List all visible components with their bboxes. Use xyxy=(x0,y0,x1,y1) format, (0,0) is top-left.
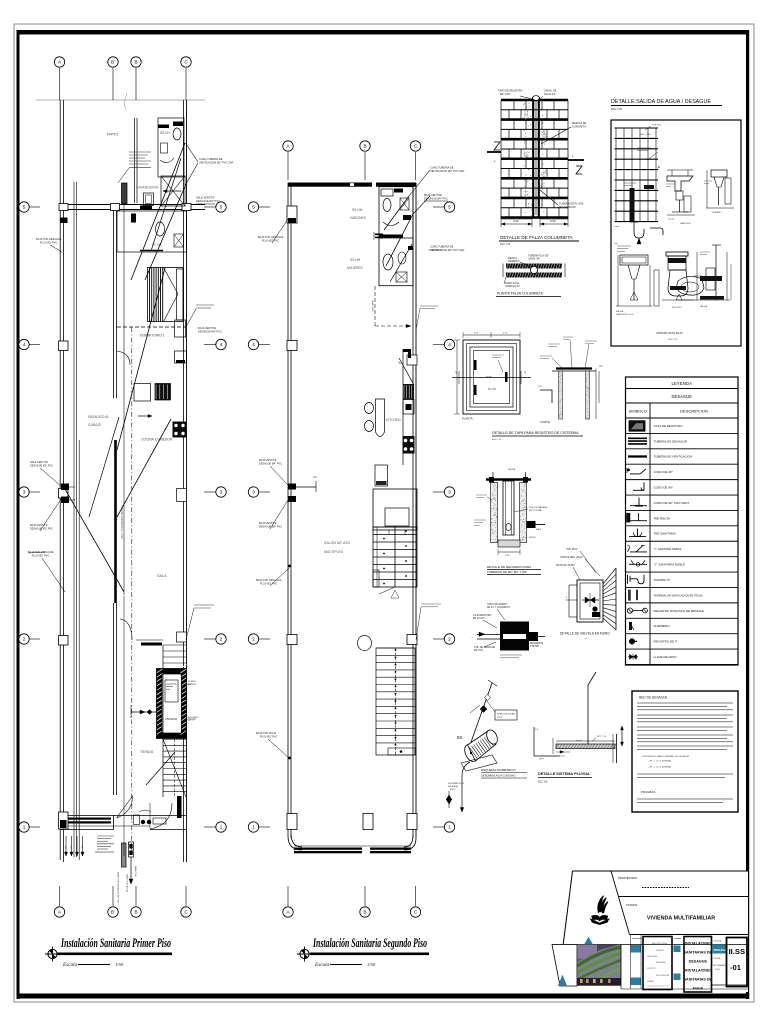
svg-text:ARQUITECTURA: ARQUITECTURA xyxy=(652,942,668,945)
plan1 row bubbles left xyxy=(30,206,41,208)
plan1 viene marker under row5 xyxy=(61,218,68,224)
svg-text:- Ø4" = 1.0 % (MINIMA): - Ø4" = 1.0 % (MINIMA) xyxy=(648,760,671,763)
svg-text:PROPIETARIO:: PROPIETARIO: xyxy=(618,876,638,880)
svg-text:B: B xyxy=(363,144,366,149)
svg-text:LAVANDERIA: LAVANDERIA xyxy=(136,186,159,190)
svg-text:CONCRETO: CONCRETO xyxy=(572,126,586,129)
plan2 row2 ellipse column xyxy=(358,636,372,651)
svg-text:SALIDA: SALIDA xyxy=(508,468,516,471)
salida: wall grid top-left xyxy=(615,128,659,222)
planta falza columneta xyxy=(506,264,562,269)
plan2 store room bottom xyxy=(373,489,417,530)
svg-text:REVISADA: REVISADA xyxy=(656,961,666,964)
svg-text:Instalación Sanitaria Primer P: Instalación Sanitaria Primer Piso xyxy=(60,936,171,950)
svg-text:NICHO EN MURO: NICHO EN MURO xyxy=(556,565,575,567)
svg-text:"Y" SANITARIA SIMPLE: "Y" SANITARIA SIMPLE xyxy=(654,547,682,551)
svg-text:VENTILACION Ø2" PVC SAP: VENTILACION Ø2" PVC SAP xyxy=(430,169,465,173)
svg-text:0.50: 0.50 xyxy=(550,219,556,223)
svg-text:SUBEN: SUBEN xyxy=(188,681,196,683)
svg-text:SALE: SALE xyxy=(536,528,542,531)
pluvial riser line xyxy=(587,685,589,744)
tapa registro top dims xyxy=(463,334,520,336)
svg-text:AGUA 3/4": AGUA 3/4" xyxy=(544,93,556,96)
svg-text:1: 1 xyxy=(252,825,255,830)
lamina number box xyxy=(727,938,748,987)
plan2 bottom wall black bars xyxy=(294,848,362,850)
svg-text:B′: B′ xyxy=(111,60,115,65)
svg-text:B: B xyxy=(134,60,137,65)
svg-text:SALE TUB. AGUA: SALE TUB. AGUA xyxy=(126,874,129,892)
svg-text:BAJA TUB. DESAGUA: BAJA TUB. DESAGUA xyxy=(256,579,282,582)
svg-text:Ø 1/2": Ø 1/2" xyxy=(497,717,503,719)
svg-text:MUJERES: MUJERES xyxy=(347,266,364,270)
svg-text:1: 1 xyxy=(23,825,26,830)
svg-text:5: 5 xyxy=(252,205,255,210)
svg-text:REGISTRO ROSCADO DE BRONCE: REGISTRO ROSCADO DE BRONCE xyxy=(654,609,704,613)
title block slanted left edge xyxy=(563,871,572,945)
refuerzo central pipe xyxy=(503,481,514,535)
plan1 dormitorio window rect xyxy=(175,320,186,337)
svg-text:DE Fo. Y CONCRETO: DE Fo. Y CONCRETO xyxy=(487,607,510,609)
bottom strip header line xyxy=(632,938,642,940)
photo strip top line xyxy=(552,944,748,946)
svg-text:LAVATORIO: LAVATORIO xyxy=(680,222,691,225)
svg-text:DESAGUE Ø4" PVC: DESAGUE Ø4" PVC xyxy=(198,330,222,334)
plan1 arrow mid xyxy=(138,415,152,417)
svg-text:CAJA DE REGISTRO: CAJA DE REGISTRO xyxy=(654,424,684,428)
svg-text:ESC 1:10: ESC 1:10 xyxy=(492,439,502,441)
svg-text:Ø4": Ø4" xyxy=(69,846,71,850)
plan2 left pipe dot xyxy=(288,565,291,568)
svg-text:DETALLE DE REFUERZO PARA: DETALLE DE REFUERZO PARA xyxy=(487,565,531,569)
svg-text:PLUV Ø3" PVC: PLUV Ø3" PVC xyxy=(260,583,277,586)
svg-text:**: ** xyxy=(585,637,587,641)
plan2 row bubbles right xyxy=(433,206,444,208)
svg-text:BAJA TUB. DESAGUA: BAJA TUB. DESAGUA xyxy=(36,238,62,241)
refuerzo left annotations xyxy=(476,494,487,496)
svg-text:→: → xyxy=(470,635,473,639)
title block outline xyxy=(552,871,748,992)
svg-text:TUBERIAS DE Ø2" Ø3" Y Ø4": TUBERIAS DE Ø2" Ø3" Y Ø4" xyxy=(487,570,527,574)
svg-text:KITCHEN: KITCHEN xyxy=(386,418,401,422)
svg-text:MEZCLA DE: MEZCLA DE xyxy=(572,122,587,125)
svg-text:muro: muro xyxy=(614,225,620,228)
refuerzo stippled columns xyxy=(491,483,498,543)
teal bar 2 xyxy=(674,946,681,953)
refuerzo black outlet right xyxy=(527,521,536,528)
salida: lavatorio front bottom left xyxy=(620,255,648,265)
inner thick border frame xyxy=(17,30,750,35)
svg-text:UNION: UNION xyxy=(529,537,536,539)
svg-text:DE 12"x24": DE 12"x24" xyxy=(473,618,485,620)
plan1 stove 4-burner xyxy=(173,422,187,438)
plan1 dashed wall dormitorio xyxy=(117,326,186,328)
svg-text:2021: 2021 xyxy=(715,969,721,971)
svg-text:SALA: SALA xyxy=(157,574,167,578)
plan1 lavanderia fixtures xyxy=(144,193,154,206)
adventist logo flame xyxy=(598,896,604,913)
valvula inner symbols xyxy=(582,599,599,601)
svg-text:TEE SANITARIA: TEE SANITARIA xyxy=(654,532,676,536)
svg-text:CODO DE 45°: CODO DE 45° xyxy=(654,470,674,474)
svg-text:LEVANT.: LEVANT. xyxy=(647,980,655,983)
teal triangle bottom left xyxy=(558,975,567,986)
svg-text:CODO DE 90° CON VENT.: CODO DE 90° CON VENT. xyxy=(654,501,690,505)
title block top edge xyxy=(573,870,749,872)
leyenda table frame xyxy=(626,377,739,665)
svg-text:- Ø2" = 1.5 % (MINIMA): - Ø2" = 1.5 % (MINIMA) xyxy=(648,766,671,769)
svg-text:3: 3 xyxy=(220,490,223,495)
valvula box xyxy=(577,580,603,622)
svg-text:SALE VENT/TE: SALE VENT/TE xyxy=(196,196,215,200)
svg-text:ESC 1:25: ESC 1:25 xyxy=(611,107,623,111)
svg-text:PLANOS: PLANOS xyxy=(656,949,664,952)
svg-text:CAJA REGISTRO: CAJA REGISTRO xyxy=(473,614,492,617)
svg-text:AGUA: AGUA xyxy=(692,987,703,991)
svg-text:DESAGUE Ø2" PVC: DESAGUE Ø2" PVC xyxy=(30,528,53,531)
svg-text:SETIEMBRE: SETIEMBRE xyxy=(713,965,726,967)
caja registro black box xyxy=(500,622,529,651)
svg-text:CANAL 3/4": CANAL 3/4" xyxy=(528,257,540,260)
compass plan1 xyxy=(48,949,57,958)
falza columneta stipple patches xyxy=(524,111,547,197)
svg-text:DESAGUE Ø2" PVC: DESAGUE Ø2" PVC xyxy=(30,465,53,468)
svg-text:ESCALA: ESCALA xyxy=(714,940,723,943)
plan2 left wall xyxy=(287,183,289,836)
svg-text:◄: ◄ xyxy=(657,165,660,169)
svg-text:B: B xyxy=(363,910,366,915)
plan2 stairs upper xyxy=(373,527,417,587)
esquema iso base parallelogram xyxy=(461,755,497,771)
svg-text:SALIDA: SALIDA xyxy=(700,305,708,308)
svg-text:ESQUEMA ISOMETRICO: ESQUEMA ISOMETRICO xyxy=(481,768,516,772)
plan2 pipe stub left of bath xyxy=(375,234,383,236)
svg-text:PROVIDENCIA: PROVIDENCIA xyxy=(656,974,670,977)
svg-text:LADRILLO KK: LADRILLO KK xyxy=(505,285,520,288)
svg-text:SUBE VENT.: SUBE VENT. xyxy=(371,300,373,313)
svg-text:Ø1/2": Ø1/2" xyxy=(450,789,456,791)
svg-text:SS.HH.: SS.HH. xyxy=(350,258,361,262)
plan1 shower box with X xyxy=(161,176,185,206)
salida: inodoro side bottom middle xyxy=(666,252,688,256)
svg-text:TERMINAL DE VENTILACION EN TEC: TERMINAL DE VENTILACION EN TECHO xyxy=(654,593,703,597)
svg-text:1/50: 1/50 xyxy=(367,962,376,967)
svg-text:-INSTALACINES: -INSTALACINES xyxy=(684,942,713,946)
svg-text:PASADIZO AL: PASADIZO AL xyxy=(88,415,109,419)
title block inner slant divider xyxy=(611,871,630,935)
plan1 bathroom row5 fixtures xyxy=(117,211,187,252)
svg-text:CISTERNA: CISTERNA xyxy=(165,718,177,721)
svg-text:P MURO: P MURO xyxy=(530,646,539,648)
svg-text:TRAMITE: TRAMITE xyxy=(626,903,638,907)
plan1 bottom valve fixtures xyxy=(122,843,127,867)
revision cell xyxy=(643,937,672,990)
svg-text:TAPA: TAPA xyxy=(486,376,492,379)
plan1 bottom fixtures xyxy=(134,815,140,825)
svg-text:Escala: Escala xyxy=(314,962,330,968)
svg-text:3: 3 xyxy=(252,490,255,495)
photo strip parallelogram left xyxy=(552,945,577,987)
salida: urinario top right xyxy=(711,170,727,177)
svg-text:3: 3 xyxy=(23,490,26,495)
svg-text:SALON DE USO: SALON DE USO xyxy=(324,541,351,545)
plan1 note sale tub row2 right xyxy=(194,604,214,606)
notes text lines xyxy=(637,702,733,704)
plan1 diagonal sala xyxy=(65,489,124,592)
plan1 bottom pipe arrows left xyxy=(65,836,67,856)
svg-text:5: 5 xyxy=(220,205,223,210)
svg-text:Ø4": Ø4" xyxy=(64,846,66,850)
plan1 dorm diagonal xyxy=(117,268,165,450)
teal triangle under logo xyxy=(584,937,593,945)
svg-text:SALE VENT/TE: SALE VENT/TE xyxy=(30,461,48,464)
svg-text:DE BOMBAS AGUA CONSUMO: DE BOMBAS AGUA CONSUMO xyxy=(481,775,516,778)
svg-text:VENTILACION Ø2" PVC SAP: VENTILACION Ø2" PVC SAP xyxy=(199,161,234,165)
plan2 right wall xyxy=(412,183,414,838)
svg-text:DESAGUE Ø4" PVC: DESAGUE Ø4" PVC xyxy=(259,463,282,466)
svg-text:DESAGUE Ø4" PVC: DESAGUE Ø4" PVC xyxy=(424,197,448,201)
svg-text:INODORO B/TQ BAJO: INODORO B/TQ BAJO xyxy=(656,331,683,335)
svg-text:REGISTRO DE 3": REGISTRO DE 3" xyxy=(654,640,678,644)
svg-text:3: 3 xyxy=(448,490,451,495)
svg-text:1/50: 1/50 xyxy=(115,962,124,967)
falza columneta dimensions xyxy=(501,218,532,220)
svg-text:BAJA TUB. DESAGUE: BAJA TUB. DESAGUE xyxy=(28,551,54,554)
svg-text:MURO SOGA: MURO SOGA xyxy=(505,282,520,285)
plan1 pipe run verticals (pasadizo) xyxy=(73,182,75,857)
svg-text:DE AGUA: DE AGUA xyxy=(448,785,458,788)
svg-text:URINARIO: URINARIO xyxy=(712,211,722,214)
svg-text:TAPA DE REG. 20x20: TAPA DE REG. 20x20 xyxy=(560,556,583,559)
plan2 kitchen elbow top xyxy=(403,349,411,352)
svg-text:DETALLE DE TAPA PARA REGISTRO: DETALLE DE TAPA PARA REGISTRO DE CISTERN… xyxy=(492,431,579,435)
plan2 kitchen ovals xyxy=(365,403,374,414)
plan1 row1 bottom walls xyxy=(60,815,186,817)
pluvial pipe xyxy=(556,744,615,749)
svg-text:Ø4" PVC: Ø4" PVC xyxy=(474,650,484,652)
plan2 column bubbles top xyxy=(287,152,289,180)
svg-text:LEYENDA: LEYENDA xyxy=(672,381,693,386)
tapa registro left dims xyxy=(456,340,458,414)
falza columneta Z section marks xyxy=(487,151,501,153)
svg-text:SUBE TUB. DE AG.: SUBE TUB. DE AG. xyxy=(497,713,516,716)
svg-text:FECHA: FECHA xyxy=(714,957,721,960)
falza columneta central pipe xyxy=(532,97,534,219)
svg-text:ESC 1:25: ESC 1:25 xyxy=(500,243,511,246)
plan2 baja tub note mid xyxy=(421,603,441,605)
svg-text:SANITARIAS DE: SANITARIAS DE xyxy=(684,951,713,955)
svg-text:L=1%: L=1% xyxy=(560,756,565,758)
svg-text:LAVATORIO h=0.55: LAVATORIO h=0.55 xyxy=(616,313,635,316)
svg-text:NPT +0.00: NPT +0.00 xyxy=(640,134,651,136)
svg-text:BAJA TUB.: BAJA TUB. xyxy=(134,866,137,877)
svg-text:reg.: reg. xyxy=(614,242,618,245)
propietario cell xyxy=(618,896,748,898)
plan1 cisterna hatched box xyxy=(157,669,187,739)
svg-text:VIVIENDA MULTIFAMILIAR: VIVIENDA MULTIFAMILIAR xyxy=(647,916,715,922)
plan1 wall column Bp segments xyxy=(113,203,115,398)
plan1 diagonal stairs tienda xyxy=(146,752,175,785)
plan1 note hace tub right row4 xyxy=(196,304,214,306)
svg-text:MULTIPLES: MULTIPLES xyxy=(324,550,344,554)
svg-text:DESAGUE: DESAGUE xyxy=(672,394,693,399)
plan1 wall column A vertical double line xyxy=(59,100,61,860)
esquema iso down pipe xyxy=(462,762,470,798)
svg-text:2: 2 xyxy=(448,637,451,642)
plan1 annotation block patio xyxy=(129,151,151,153)
plan1 ss.hh top room fixtures xyxy=(158,118,184,177)
svg-text:1: 1 xyxy=(220,825,223,830)
svg-text:4: 4 xyxy=(252,342,255,347)
plan1 grid line top (gray) xyxy=(36,99,205,101)
svg-text:BAJA TUB. AGUA: BAJA TUB. AGUA xyxy=(256,732,276,735)
svg-text:2: 2 xyxy=(220,637,223,642)
svg-text:LLAVE DE PASO: LLAVE DE PASO xyxy=(654,655,678,659)
svg-text:B: B xyxy=(134,910,137,915)
svg-text:Escala: Escala xyxy=(62,962,78,968)
plan1 tank black rect patio xyxy=(122,183,128,204)
plan1 stairs upper flight xyxy=(163,644,186,646)
svg-text:ESC 1:25: ESC 1:25 xyxy=(668,339,678,341)
svg-text:PENDIENTE: PENDIENTE xyxy=(530,643,544,645)
svg-text:0.50: 0.50 xyxy=(513,219,519,223)
svg-text:-01: -01 xyxy=(730,963,742,972)
plan1 column bubbles top xyxy=(59,68,61,100)
svg-text:SS.HH.: SS.HH. xyxy=(352,208,363,212)
detail falza columneta brick wall xyxy=(500,100,502,219)
plan2 tiny note right linea vista xyxy=(420,305,438,307)
esquema iso sube tub box xyxy=(495,710,517,720)
plan2 column rects xyxy=(287,206,297,223)
svg-text:BAJA VENT/TE: BAJA VENT/TE xyxy=(30,524,48,527)
refuerzo detail top bar xyxy=(486,478,531,480)
svg-text:4: 4 xyxy=(23,342,26,347)
salida: p-trap mid-left xyxy=(634,222,644,238)
tapa registro inner marks xyxy=(474,360,477,370)
plan1 wall B segment top (lavanderia) xyxy=(134,118,136,203)
plan2 bath fixtures bottom xyxy=(383,254,393,270)
svg-text:DETALLE SISTEMA PLUVIAL: DETALLE SISTEMA PLUVIAL xyxy=(538,772,591,776)
svg-text:CODO DE 90°: CODO DE 90° xyxy=(654,486,674,490)
plan1 row2 door arc + table xyxy=(120,619,132,640)
svg-text:BS: BS xyxy=(457,735,463,740)
esquema iso diagonal pipe xyxy=(470,683,492,745)
svg-text:TUBERIA DE VENTILACION: TUBERIA DE VENTILACION xyxy=(654,455,693,459)
svg-text:-INSTALACINES: -INSTALACINES xyxy=(684,969,713,973)
plan1 dashed centerline xyxy=(131,327,133,855)
svg-text:B′: B′ xyxy=(111,910,115,915)
svg-text:2: 2 xyxy=(23,637,26,642)
svg-text:4: 4 xyxy=(448,342,451,347)
svg-text:GARAJE: GARAJE xyxy=(88,423,102,427)
plan1 door arc row4 xyxy=(117,351,130,365)
svg-text:SIMBOLO: SIMBOLO xyxy=(629,409,647,414)
svg-text:5: 5 xyxy=(23,205,26,210)
svg-text:Ø4": Ø4" xyxy=(80,846,82,850)
svg-text:DETALLE:SALIDA DE AGUA / DESAG: DETALLE:SALIDA DE AGUA / DESAGUE xyxy=(611,99,711,105)
tapa registro Y-Y section line xyxy=(452,377,531,379)
refuerzo bottom stipple xyxy=(498,540,520,547)
plan1 row4 small rect C xyxy=(175,351,187,363)
svg-text:COCINA-COMEDOR: COCINA-COMEDOR xyxy=(141,438,173,442)
svg-text:2: 2 xyxy=(252,637,255,642)
svg-text:SUMIDERO: SUMIDERO xyxy=(654,624,671,628)
plan2 stairs lower xyxy=(376,648,415,755)
svg-text:DORMITORIO 1: DORMITORIO 1 xyxy=(140,334,165,338)
plan1 stair side rail xyxy=(162,645,164,797)
tramite cell xyxy=(630,934,749,936)
caja registro left pipe xyxy=(477,634,500,636)
cells right of photo xyxy=(620,945,622,990)
svg-text:CUAD.TUBERIA DE: CUAD.TUBERIA DE xyxy=(430,166,454,170)
svg-text:PATIO: PATIO xyxy=(107,132,118,137)
plan1 kitchen fixtures xyxy=(134,384,151,402)
svg-text:TUBERIA PENDIENTE AL 1 PVC: TUBERIA PENDIENTE AL 1 PVC xyxy=(120,505,123,539)
svg-text:PLANTA: PLANTA xyxy=(462,417,473,421)
svg-text:1: 1 xyxy=(448,825,451,830)
svg-text:DISTRITO: DISTRITO xyxy=(647,968,656,970)
svg-text:BAJA VENT/TE: BAJA VENT/TE xyxy=(259,459,277,462)
svg-text:SALIDA: SALIDA xyxy=(616,310,624,313)
svg-text:- PENDIENTES PARA TUBERIAS DE: - PENDIENTES PARA TUBERIAS DE DESAGUE xyxy=(641,755,690,758)
svg-text:TRAMPA "P": TRAMPA "P" xyxy=(654,578,671,582)
svg-text:Ø4" A 45°: Ø4" A 45° xyxy=(500,93,511,96)
refuerzo dims bottom xyxy=(498,551,520,553)
svg-text:NPTL: NPTL xyxy=(539,759,545,761)
svg-text:SS.HH: SS.HH xyxy=(160,131,170,135)
plan2 bath fixtures top xyxy=(381,189,393,196)
plan1 bottom annotation block xyxy=(97,835,114,837)
svg-text:DESAGUE: DESAGUE xyxy=(689,960,708,964)
svg-text:NPT 2.70: NPT 2.70 xyxy=(597,736,607,738)
tapa registro corte xyxy=(556,367,592,369)
svg-text:AGUJERO: AGUJERO xyxy=(188,716,199,719)
plan1 column rects on A at rows xyxy=(59,341,69,351)
plan1 row5 wall xyxy=(60,204,205,206)
svg-text:"Y" SANITARIA DOBLE: "Y" SANITARIA DOBLE xyxy=(654,563,685,567)
pluvial axes xyxy=(534,755,560,757)
svg-text:TUB. DE BAJADA: TUB. DE BAJADA xyxy=(529,506,547,509)
svg-text:PREVISUAL: PREVISUAL xyxy=(647,955,658,958)
plan1 bed dormitorio xyxy=(148,268,184,322)
svg-text:Ø4": Ø4" xyxy=(75,846,77,850)
plan1 row bubbles right xyxy=(204,206,216,208)
svg-text:PRUEBAS: PRUEBAS xyxy=(641,790,655,794)
svg-text:TAPA CON MARCO: TAPA CON MARCO xyxy=(487,603,508,606)
plan1 baja vent markers left row3 xyxy=(61,484,69,491)
teal bar 1 xyxy=(631,945,642,953)
plan2 kitchen right column xyxy=(402,349,404,465)
svg-text:CUAD.TUBERIA DE: CUAD.TUBERIA DE xyxy=(430,245,454,249)
plan1 wall column C vertical double xyxy=(183,100,185,862)
svg-text:CEMENTO: CEMENTO xyxy=(508,261,520,263)
svg-text:VARONES: VARONES xyxy=(350,216,367,220)
svg-text:BAJA VENT/TE: BAJA VENT/TE xyxy=(198,326,216,330)
svg-text:DESCRIPCION: DESCRIPCION xyxy=(680,409,708,414)
tapa registro corte annotations xyxy=(540,355,552,357)
svg-text:MEZCLA: MEZCLA xyxy=(508,257,518,260)
plan2 row bubbles left xyxy=(259,206,270,208)
adventist logo book xyxy=(591,915,608,921)
svg-text:DISTRIBUCION: DISTRIBUCION xyxy=(448,783,464,785)
plan1 garage pipe thick bars xyxy=(66,818,111,820)
svg-text:PLUV Ø3" PVC: PLUV Ø3" PVC xyxy=(40,242,57,245)
svg-text:PLANTA FALZA COLUMNETA: PLANTA FALZA COLUMNETA xyxy=(497,292,544,296)
plan2 bath diagonals xyxy=(384,196,409,230)
svg-text:BAJA TUB. DESAGUE Ø4" PVC: BAJA TUB. DESAGUE Ø4" PVC xyxy=(117,872,120,904)
svg-text:PLUV Ø3" PVC: PLUV Ø3" PVC xyxy=(262,240,279,243)
svg-text:TUBERIA DE DESAGUE: TUBERIA DE DESAGUE xyxy=(654,439,687,443)
